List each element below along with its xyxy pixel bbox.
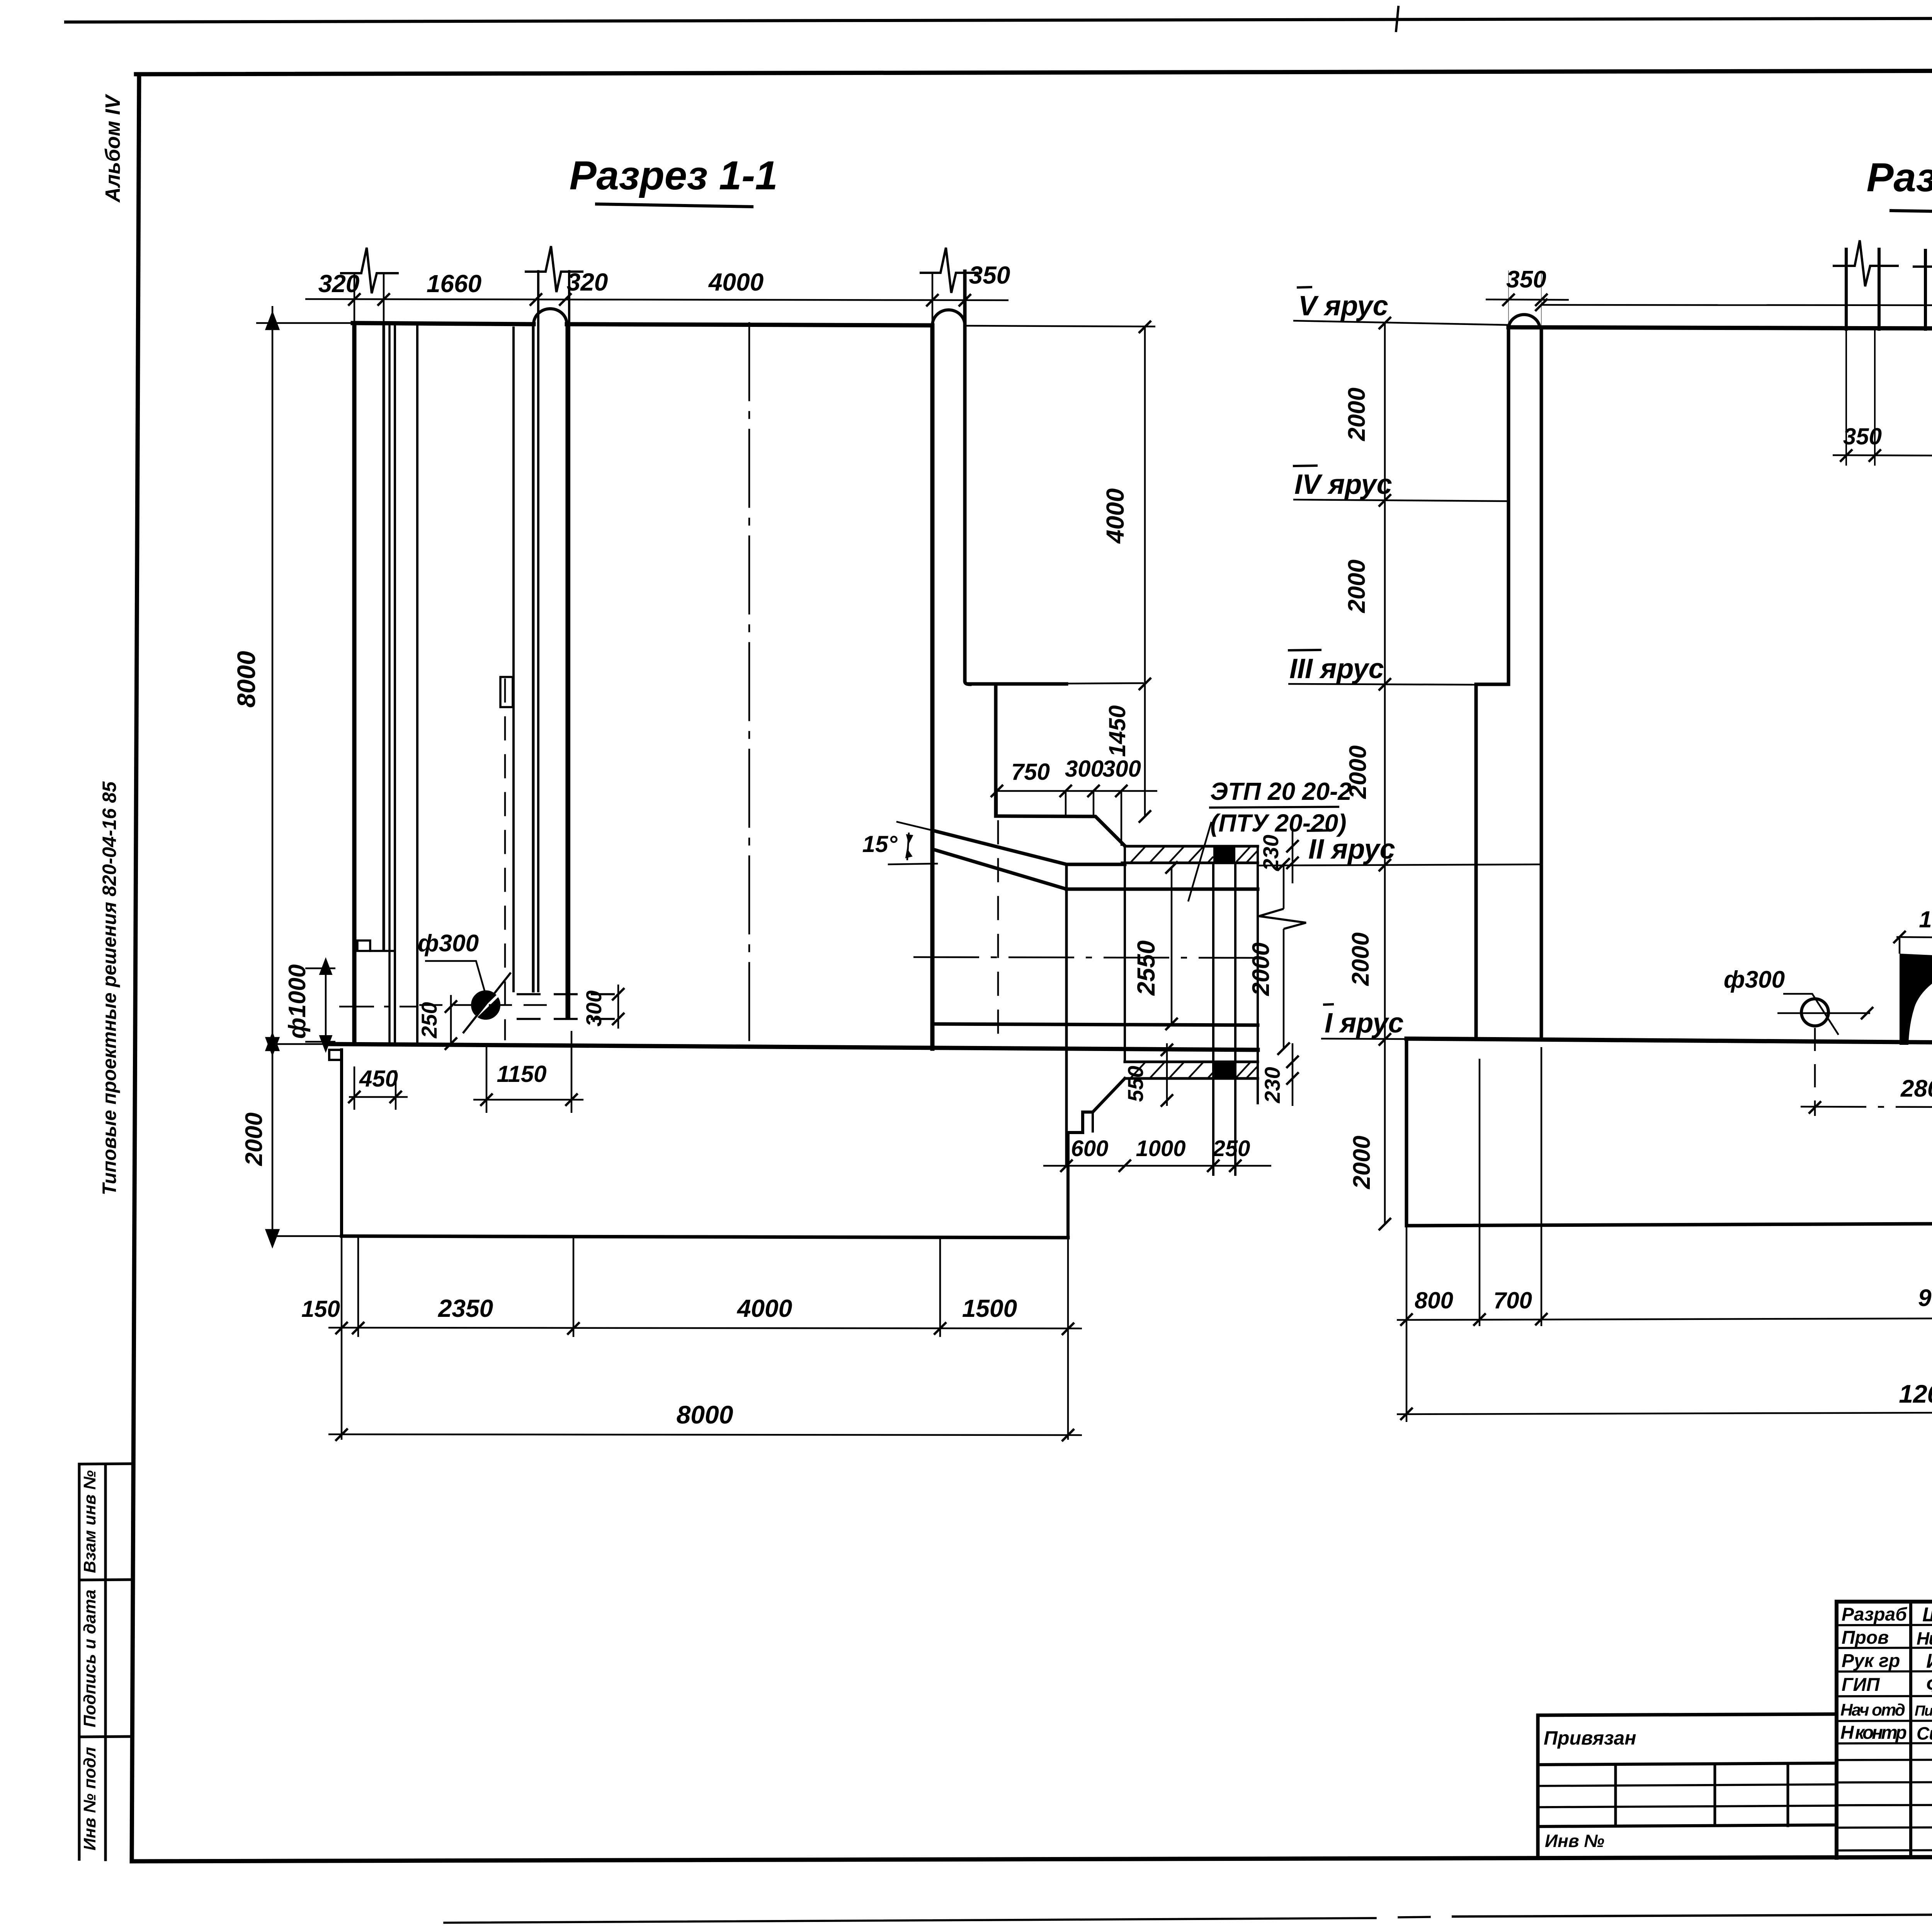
svg-text:III ярус: III ярус bbox=[1289, 653, 1384, 684]
svg-text:(ПТУ 20-20): (ПТУ 20-20) bbox=[1210, 809, 1347, 837]
svg-text:Сильченко: Сильченко bbox=[1917, 1723, 1932, 1743]
svg-text:300: 300 bbox=[1102, 756, 1141, 782]
svg-text:1150: 1150 bbox=[497, 1061, 546, 1087]
svg-text:Инв № подл: Инв № подл bbox=[80, 1747, 99, 1850]
svg-text:8000: 8000 bbox=[232, 651, 260, 707]
svg-text:Иоффе: Иоффе bbox=[1926, 1650, 1932, 1672]
svg-text:Привязан: Привязан bbox=[1544, 1727, 1636, 1749]
svg-text:800: 800 bbox=[1415, 1287, 1453, 1313]
svg-text:2000: 2000 bbox=[241, 1112, 267, 1166]
svg-text:Франк: Франк bbox=[1926, 1674, 1932, 1696]
svg-text:2000: 2000 bbox=[1344, 560, 1370, 613]
svg-text:2000: 2000 bbox=[1345, 745, 1371, 799]
svg-text:1660: 1660 bbox=[427, 270, 481, 298]
svg-text:2350: 2350 bbox=[438, 1294, 493, 1322]
svg-text:450: 450 bbox=[359, 1066, 398, 1092]
svg-text:320: 320 bbox=[567, 268, 608, 296]
svg-text:Пров: Пров bbox=[1842, 1628, 1889, 1648]
svg-text:300: 300 bbox=[1065, 756, 1104, 782]
svg-text:1500: 1500 bbox=[962, 1294, 1017, 1322]
svg-text:Альбом IV: Альбом IV bbox=[101, 94, 124, 203]
svg-text:550: 550 bbox=[1123, 1066, 1148, 1102]
svg-text:2000: 2000 bbox=[1347, 932, 1374, 986]
svg-text:8000: 8000 bbox=[677, 1400, 733, 1429]
svg-text:4000: 4000 bbox=[708, 268, 764, 296]
svg-text:V ярус: V ярус bbox=[1298, 291, 1388, 321]
svg-text:I ярус: I ярус bbox=[1325, 1008, 1404, 1039]
svg-text:250: 250 bbox=[417, 1002, 441, 1038]
svg-text:12000: 12000 bbox=[1899, 1379, 1932, 1408]
svg-text:15°: 15° bbox=[862, 831, 898, 857]
svg-text:2000: 2000 bbox=[1344, 388, 1370, 441]
svg-text:4000: 4000 bbox=[736, 1294, 792, 1322]
svg-text:250: 250 bbox=[1213, 1136, 1250, 1161]
svg-text:Нач отд: Нач отд bbox=[1840, 1701, 1905, 1719]
svg-text:1000: 1000 bbox=[1919, 906, 1932, 932]
svg-text:700: 700 bbox=[1493, 1287, 1532, 1313]
svg-text:600: 600 bbox=[1071, 1136, 1109, 1161]
svg-text:ЭТП 20 20-2: ЭТП 20 20-2 bbox=[1210, 777, 1352, 805]
svg-text:150: 150 bbox=[301, 1296, 340, 1322]
svg-text:4000: 4000 bbox=[1101, 488, 1129, 544]
svg-text:Подпись и дата: Подпись и дата bbox=[80, 1590, 99, 1728]
svg-text:Рук гр: Рук гр bbox=[1842, 1651, 1900, 1671]
svg-text:350: 350 bbox=[1506, 266, 1546, 293]
svg-text:Разрез 1-1: Разрез 1-1 bbox=[569, 153, 777, 198]
svg-text:2000: 2000 bbox=[1349, 1136, 1375, 1189]
svg-text:2550: 2550 bbox=[1132, 940, 1160, 996]
svg-text:1000: 1000 bbox=[1136, 1136, 1185, 1161]
svg-text:ГИП: ГИП bbox=[1842, 1675, 1880, 1695]
svg-text:II ярус: II ярус bbox=[1308, 834, 1395, 865]
svg-text:Николаева: Николаева bbox=[1917, 1628, 1932, 1648]
svg-text:320: 320 bbox=[318, 270, 360, 298]
svg-text:ф300: ф300 bbox=[418, 930, 479, 957]
svg-text:Взам инв №: Взам инв № bbox=[80, 1470, 99, 1573]
svg-text:Типовые проектные решения: Типовые проектные решения 820-04-16 85 bbox=[99, 781, 120, 1195]
svg-text:350: 350 bbox=[969, 261, 1010, 289]
svg-text:IV ярус: IV ярус bbox=[1294, 469, 1392, 500]
svg-text:2000: 2000 bbox=[1248, 942, 1274, 996]
svg-text:300: 300 bbox=[582, 990, 606, 1026]
svg-text:1450: 1450 bbox=[1104, 705, 1130, 757]
svg-text:2800: 2800 bbox=[1900, 1075, 1932, 1102]
svg-text:Разраб: Разраб bbox=[1842, 1604, 1907, 1625]
svg-text:Инв №: Инв № bbox=[1545, 1831, 1604, 1851]
svg-text:350: 350 bbox=[1843, 423, 1882, 449]
svg-text:Писнячевский: Писнячевский bbox=[1915, 1703, 1932, 1719]
svg-text:230: 230 bbox=[1260, 1067, 1284, 1103]
svg-text:9000: 9000 bbox=[1918, 1285, 1932, 1311]
svg-text:ф300: ф300 bbox=[1724, 966, 1785, 993]
svg-text:Н контр: Н контр bbox=[1840, 1723, 1907, 1743]
svg-text:Штепа: Штепа bbox=[1922, 1604, 1932, 1626]
svg-text:750: 750 bbox=[1011, 759, 1050, 785]
svg-text:ф1000: ф1000 bbox=[284, 964, 311, 1039]
svg-text:Разрез 3-3: Разрез 3-3 bbox=[1866, 155, 1932, 200]
